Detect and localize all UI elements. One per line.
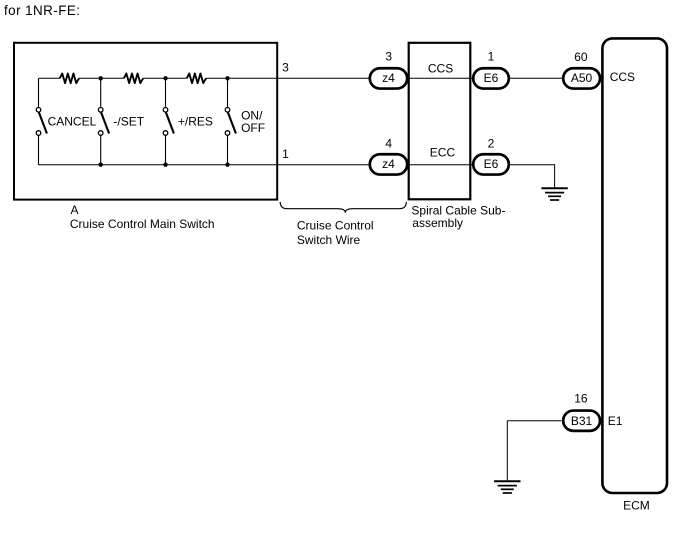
- svg-text:3: 3: [282, 60, 289, 74]
- svg-text:-/SET: -/SET: [113, 114, 144, 128]
- label Cruise Control Switch Wire: [297, 219, 374, 247]
- svg-text:Switch Wire: Switch Wire: [297, 233, 361, 247]
- spiral cable sub-assembly box: [409, 43, 471, 200]
- resistor R2: [124, 74, 143, 84]
- svg-text:60: 60: [574, 50, 588, 64]
- connector B31 pin 16: [563, 392, 600, 431]
- connector E6 pin 1: [473, 50, 509, 89]
- svg-text:3: 3: [385, 50, 392, 64]
- ECM box U1: [602, 38, 667, 493]
- svg-text:16: 16: [574, 392, 588, 406]
- svg-text:OFF: OFF: [241, 121, 265, 135]
- cruise control main switch box A: [14, 43, 277, 200]
- junction bottom bus at +/RES: [163, 163, 167, 167]
- svg-text:E6: E6: [484, 157, 499, 171]
- switch SW3 +/RES: [163, 78, 174, 164]
- label Spiral Cable Sub-assembly: [411, 203, 505, 230]
- wire CCS row through spiral box: [409, 77, 473, 79]
- junction bottom bus at ON/OFF: [225, 163, 229, 167]
- resistor R3: [187, 74, 206, 84]
- svg-text:CANCEL: CANCEL: [48, 114, 97, 128]
- svg-text:CCS: CCS: [610, 70, 635, 84]
- switch SW1 CANCEL: [36, 78, 47, 164]
- svg-text:Cruise Control Main Switch: Cruise Control Main Switch: [70, 217, 215, 231]
- connector z4 pin 3: [370, 50, 407, 89]
- svg-text:z4: z4: [382, 157, 395, 171]
- switch SW2 -/SET: [98, 78, 109, 164]
- wire E6-1 to A50: [510, 77, 563, 79]
- svg-text:4: 4: [385, 136, 392, 150]
- svg-text:1: 1: [282, 147, 289, 161]
- svg-text:B31: B31: [571, 414, 593, 428]
- svg-text:Cruise Control: Cruise Control: [297, 219, 374, 233]
- svg-text:E6: E6: [484, 71, 499, 85]
- wire E6-2 to ground: [510, 165, 555, 188]
- junction top bus at +/RES: [163, 76, 167, 80]
- svg-text:z4: z4: [382, 71, 395, 85]
- svg-text:E1: E1: [608, 414, 623, 428]
- label ON/OFF: [241, 109, 265, 135]
- junction bottom bus at -/SET: [99, 163, 103, 167]
- connector z4 pin 4: [370, 136, 407, 174]
- svg-text:A50: A50: [571, 71, 593, 85]
- ground G1: [541, 188, 567, 200]
- svg-text:for 1NR-FE:: for 1NR-FE:: [4, 3, 80, 18]
- junction top bus at -/SET: [99, 76, 103, 80]
- brace for cruise control switch wire: [280, 202, 406, 213]
- ground G2: [494, 481, 520, 493]
- svg-text:CCS: CCS: [428, 61, 453, 75]
- svg-text:assembly: assembly: [412, 216, 463, 230]
- switch SW4 ON/OFF: [225, 78, 236, 164]
- wire top bus node 3: [39, 77, 369, 79]
- connector A50 pin 60: [563, 50, 600, 89]
- wire ECC row through spiral box: [409, 164, 473, 166]
- junction top bus at ON/OFF: [225, 76, 229, 80]
- svg-text:ECM: ECM: [623, 498, 650, 512]
- svg-text:1: 1: [488, 50, 495, 64]
- resistor R1: [60, 74, 79, 84]
- svg-text:2: 2: [488, 136, 495, 150]
- svg-text:ECC: ECC: [430, 145, 456, 159]
- svg-text:A: A: [71, 203, 79, 217]
- wire B31 to ground: [507, 421, 561, 481]
- wire bottom bus node 1: [39, 164, 369, 166]
- svg-text:+/RES: +/RES: [178, 114, 213, 128]
- label A / Cruise Control Main Switch: [70, 203, 215, 231]
- connector E6 pin 2: [473, 136, 509, 174]
